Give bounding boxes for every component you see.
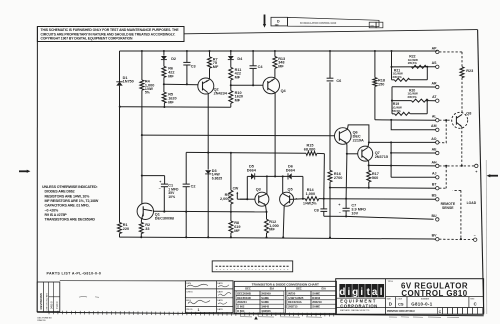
- svg-text:AJ: AJ: [432, 172, 437, 176]
- diode D6 D664: [288, 173, 292, 179]
- wire: Q4 emitter down to D5/D6 junction: [274, 93, 276, 177]
- wire: horizontal line y135 (R4 junction to Q6 base): [142, 134, 335, 137]
- potentiometer R9 2,000: [229, 190, 233, 204]
- wire: C8 bottom corner to BU line: [324, 215, 346, 217]
- svg-text:33: 33: [145, 227, 149, 231]
- svg-text:7120 C: 7120 C: [56, 301, 59, 309]
- svg-text:1/4W 6.8625: 1/4W 6.8625: [288, 296, 304, 300]
- capacitor C4: [250, 65, 257, 67]
- svg-text:2N4234: 2N4234: [237, 300, 247, 304]
- svg-text:AH: AH: [431, 160, 437, 164]
- bottom margin up-arrow mark: [254, 316, 258, 319]
- resistor R2 33: [139, 222, 143, 233]
- resistor R23 (external): [460, 67, 464, 78]
- transistor Q1 DEC3009B: [137, 203, 153, 219]
- capacitor C7 3.9 MFD 10V: [345, 199, 347, 208]
- svg-text:1: 1: [198, 308, 200, 312]
- wire: AE line: [391, 152, 436, 154]
- wire: BS line (C8 node through C7 to terminal BS): [324, 198, 436, 201]
- svg-text:i: i: [360, 287, 363, 298]
- wire: AO line: [369, 141, 436, 143]
- digital logo: [339, 284, 345, 297]
- title block frame: [336, 279, 484, 315]
- svg-text:g: g: [352, 287, 358, 298]
- smudge under chart: [240, 316, 322, 319]
- resistor R14 1,000 1/4W 5%: [305, 197, 319, 201]
- svg-text:68,000: 68,000: [304, 147, 316, 151]
- svg-text:RESISTORS ARE 1/4W, 10%: RESISTORS ARE 1/4W, 10%: [45, 194, 91, 198]
- svg-text:2,000: 2,000: [220, 197, 230, 201]
- diode D4: [228, 56, 234, 60]
- resistor R19 1 ohm WW 2W 5% (parallel loop): [395, 112, 411, 115]
- svg-text:D 662: D 662: [237, 305, 245, 309]
- svg-text:MF: MF: [278, 65, 284, 69]
- resistor R13 348 MF: [273, 57, 277, 69]
- wire: AL line: [375, 119, 436, 121]
- svg-text:DIODES ARE D662: DIODES ARE D662: [45, 190, 75, 194]
- wire: AH line (Q7 emitter node to terminal AH): [369, 164, 436, 167]
- terminal AT: [436, 99, 439, 102]
- svg-text:G810-0-1: G810-0-1: [411, 301, 433, 306]
- wire: reference line y152.8 (C2 top to R15): [186, 151, 306, 154]
- svg-text:l: l: [380, 287, 383, 298]
- svg-text:MF: MF: [269, 228, 275, 232]
- resistor R15 68,000: [306, 151, 317, 155]
- terminal AL: [436, 119, 439, 122]
- svg-text:SENSE: SENSE: [442, 206, 454, 210]
- svg-text:BV: BV: [432, 234, 438, 238]
- wire: dashed AL/AO tie: [439, 120, 446, 143]
- wire: Q4 base line: [231, 84, 263, 86]
- wire: AJ line: [391, 176, 436, 178]
- svg-text:1N3606: 1N3606: [261, 309, 271, 313]
- wire: R13 branch from top bus to Q4 collector: [274, 51, 276, 57]
- bottom border tick marks: [49, 311, 334, 317]
- svg-text:MAYNARD. MASSACHUSETTS: MAYNARD. MASSACHUSETTS: [340, 309, 370, 312]
- svg-text:AR: AR: [431, 81, 437, 85]
- wire: Q2 base line (R6/R5 junction to Q2): [164, 83, 199, 86]
- top margin title strip: [288, 17, 380, 26]
- wire: BT line (R16 bottom to terminal BT): [330, 187, 436, 190]
- wire: AO/AE/AJ tie rail x391.1: [390, 142, 392, 177]
- wire: dashed AH node down to BT stub: [445, 166, 447, 188]
- svg-text:2700: 2700: [334, 176, 342, 180]
- svg-text:TRANSISTORS ARE DEC6534D: TRANSISTORS ARE DEC6534D: [45, 218, 96, 222]
- svg-text:EIA: EIA: [270, 287, 274, 291]
- connector pin numbers (smudge): [216, 268, 288, 270]
- terminal AP: [436, 50, 439, 53]
- wire: dashed AP to R23 top: [439, 51, 462, 53]
- wire: Q5 collector up to clamp line: [282, 176, 284, 194]
- svg-text:2N2219: 2N2219: [312, 300, 322, 304]
- svg-text:2219A: 2219A: [353, 138, 364, 142]
- svg-text:SAME: SAME: [312, 291, 320, 295]
- resistor R7 75 MF: [208, 57, 212, 68]
- svg-text:10V: 10V: [351, 211, 358, 215]
- wire: AS line: [392, 66, 436, 68]
- svg-text:DEC3009B: DEC3009B: [155, 217, 174, 221]
- svg-text:1N750: 1N750: [123, 80, 134, 84]
- svg-text:LOAD: LOAD: [467, 201, 477, 205]
- svg-text:0485 B: 0485 B: [51, 301, 54, 309]
- svg-text:560: 560: [372, 176, 378, 180]
- svg-text:2W,5%: 2W,5%: [408, 95, 418, 99]
- terminal + (load positive): [475, 164, 478, 167]
- wire: C1 jog from R4 rail: [142, 175, 165, 177]
- resistor R8 619 MF: [229, 221, 233, 233]
- svg-text:2N3715: 2N3715: [288, 305, 298, 309]
- svg-text:1,000: 1,000: [306, 192, 316, 196]
- svg-text:DATE: DATE: [217, 308, 223, 311]
- wire: R20/R19 left rail: [391, 87, 393, 114]
- svg-text:MF: MF: [168, 100, 174, 104]
- wire: AR line: [392, 86, 436, 88]
- svg-text:C6: C6: [336, 79, 341, 83]
- svg-text:CORPORATION: CORPORATION: [340, 303, 378, 308]
- wire: Q2 emitter / D3 rail down to bottom bus: [207, 93, 209, 170]
- wire: D6 right end down to Q5 emitter/R14 node: [302, 176, 304, 198]
- svg-text:D 664: D 664: [237, 309, 245, 313]
- svg-text:2N4234: 2N4234: [214, 91, 228, 95]
- wire: +V top bus: [120, 50, 438, 52]
- svg-text:Q3: Q3: [256, 188, 261, 192]
- svg-text:IN750: IN750: [288, 291, 296, 295]
- svg-text:SIZE: SIZE: [387, 298, 392, 300]
- svg-text:MF: MF: [168, 74, 174, 78]
- wire: Q3 base line from R9 wiper: [240, 198, 255, 200]
- diode D5 D664: [251, 173, 255, 179]
- svg-text:R9 IS A #275P: R9 IS A #275P: [45, 213, 68, 217]
- svg-text:BS: BS: [432, 194, 438, 198]
- svg-text:DEC3009B: DEC3009B: [237, 291, 251, 295]
- svg-text:DATE: DATE: [217, 299, 223, 302]
- svg-text:G810: G810: [370, 25, 374, 27]
- svg-text:CODE: CODE: [397, 298, 403, 300]
- wire: Q6/Q7 node down to C7/BS node: [345, 154, 348, 199]
- svg-text:CHK CHG NO REV: CHK CHG NO REV: [46, 292, 48, 310]
- svg-text:MF RESISTORS ARE 1%, T2,1/8W: MF RESISTORS ARE 1%, T2,1/8W: [45, 199, 99, 203]
- junction dots: [141, 50, 143, 52]
- wire: Q1 emitter to R2: [140, 220, 142, 223]
- wire: C3 branch from top bus to Q2 base line: [186, 51, 188, 63]
- revision history smudge: [79, 296, 99, 297]
- terminal AR: [436, 85, 439, 88]
- svg-text:1/4W,5%: 1/4W,5%: [303, 202, 317, 206]
- capacitor C3: [183, 61, 190, 63]
- diode D3 (zener 6.8625): [205, 170, 211, 174]
- svg-text:CW: CW: [233, 187, 239, 191]
- resistor R16 2700: [328, 170, 332, 182]
- svg-text:AP: AP: [432, 46, 438, 50]
- svg-text:Q4: Q4: [281, 89, 287, 93]
- wire: Q5 emitter to R14 node: [293, 198, 303, 200]
- right margin left-arrow mark: [490, 175, 498, 177]
- svg-text:DRA 110: DRA 110: [38, 319, 47, 322]
- wire: C4 branch from top bus to Q4 base line: [252, 51, 254, 66]
- svg-text:10%: 10%: [168, 195, 175, 199]
- left margin right-arrow mark: [19, 170, 27, 172]
- top margin down-arrow mark: [264, 15, 266, 25]
- svg-text:6V REGULATOR CONTROL G810: 6V REGULATOR CONTROL G810: [300, 22, 337, 25]
- terminal - (load negative): [474, 238, 477, 241]
- wire: Q7 collector up to AO node: [368, 142, 369, 147]
- svg-text:AM: AM: [431, 124, 437, 128]
- svg-text:NUMBER: NUMBER: [421, 298, 430, 300]
- resistor R18 150: [373, 78, 377, 87]
- transistor Q6 DEC2219A: [335, 128, 352, 145]
- wire: dashed BT stub: [439, 187, 446, 189]
- svg-text:DEC2219A: DEC2219A: [288, 300, 302, 304]
- svg-text:−: −: [474, 234, 476, 238]
- wire: R4/Q1/R2 rail: [141, 51, 143, 80]
- svg-text:TITLE: TITLE: [388, 281, 394, 283]
- svg-text:2W,5%: 2W,5%: [393, 75, 403, 79]
- svg-text:DATE: DATE: [217, 282, 223, 285]
- smudge under title block: [389, 316, 459, 319]
- capacitor C6: [327, 77, 334, 79]
- svg-text:CONTROL G810: CONTROL G810: [401, 289, 467, 298]
- wire: C2 branch down to bottom bus: [185, 152, 187, 184]
- wire: dashed load loop (+ to -): [453, 189, 461, 191]
- svg-text:D: D: [277, 20, 280, 24]
- signatures (scribbles): [187, 284, 208, 286]
- wire: BU line (C8/C7 bottoms to terminal BU): [346, 216, 434, 219]
- svg-text:6.8625: 6.8625: [212, 176, 222, 180]
- svg-text:D2: D2: [171, 57, 176, 61]
- svg-text:CS: CS: [398, 301, 404, 306]
- svg-text:SAME: SAME: [261, 296, 269, 300]
- transistor and diode conversion chart: [234, 281, 336, 313]
- wire: D4/R11/R10 rail: [230, 51, 232, 56]
- svg-text:1N645: 1N645: [261, 305, 269, 309]
- svg-text:REVISIONS: REVISIONS: [39, 293, 43, 309]
- revision strip top edge: [60, 280, 186, 282]
- svg-text:MF: MF: [235, 75, 241, 79]
- resistor R5 1620 MF: [162, 92, 166, 103]
- wire: Q7 emitter to AH node: [368, 160, 369, 166]
- signature block: [185, 281, 233, 313]
- notice box (test and maintenance disclaimer): [37, 27, 184, 42]
- svg-text:SAME: SAME: [312, 305, 320, 309]
- svg-text:+: +: [159, 180, 161, 184]
- svg-text:DEC: DEC: [296, 287, 302, 291]
- svg-text:DATE: DATE: [217, 290, 223, 293]
- connector pin strip: [212, 261, 293, 272]
- resistor R1 220: [118, 223, 122, 234]
- svg-text:C8: C8: [314, 208, 319, 212]
- terminal BV: [436, 238, 439, 241]
- svg-text:2W,5%: 2W,5%: [408, 61, 418, 65]
- transistor Q3: [255, 192, 269, 206]
- terminal AS: [436, 65, 439, 68]
- wire: D1 left rail (top bus to bottom bus): [119, 51, 121, 82]
- svg-text:R23: R23: [466, 69, 473, 73]
- svg-text:Q5: Q5: [288, 188, 293, 192]
- wire: D5/D6 clamp line y176.4: [247, 175, 251, 177]
- svg-text:AE: AE: [432, 147, 438, 151]
- svg-text:2N3715: 2N3715: [375, 155, 388, 159]
- svg-text:MF: MF: [234, 229, 240, 233]
- svg-text:2W,5%: 2W,5%: [392, 109, 402, 113]
- resistor R11 422 MF: [229, 67, 233, 80]
- resistor R4 1,000: [140, 80, 144, 90]
- wire: D5 left end down to Q3 base line: [246, 176, 248, 199]
- terminal AJ: [436, 176, 439, 179]
- svg-text:EIA: EIA: [322, 287, 326, 291]
- wire: R17 bottom to BT line: [368, 182, 370, 188]
- svg-text:−: −: [159, 187, 161, 191]
- svg-text:−0 +20%: −0 +20%: [45, 208, 59, 212]
- svg-text:D4003: D4003: [312, 296, 320, 300]
- diode D2: [161, 56, 167, 60]
- wire: dashed AL to Q8 base: [439, 119, 452, 121]
- wire: C6/R16 rail from top bus to bottom bus: [329, 51, 331, 78]
- sheet border frame: [36, 27, 38, 313]
- svg-text:CAPACITORS ARE .01 MFD,: CAPACITORS ARE .01 MFD,: [45, 204, 90, 208]
- wire: AM jog from AL line: [391, 120, 435, 130]
- wire: R7 branch from top bus to Q2 collector: [209, 51, 211, 57]
- terminal BT: [436, 187, 439, 190]
- terminal BU: [436, 218, 439, 221]
- resistor R10 1620 MF: [229, 91, 233, 104]
- capacitor C8: [323, 199, 325, 209]
- svg-text:Q8: Q8: [466, 111, 471, 115]
- svg-text:a: a: [372, 287, 378, 298]
- svg-text:D: D: [389, 302, 392, 307]
- capacitor C2: [183, 183, 190, 185]
- wire: Q6 emitter down to Q7 base node: [345, 143, 348, 154]
- svg-text:220: 220: [123, 227, 129, 231]
- wire: R15 right end down to BS node: [317, 152, 325, 154]
- capacitor C1 1 MFD: [161, 183, 168, 185]
- terminal BS: [436, 198, 439, 201]
- wire: dashed AH line to + load terminal: [439, 165, 474, 167]
- wire: Q3 collector up to clamp line: [266, 176, 268, 194]
- resistor R22 1 ohm WW 2W 5%: [411, 65, 426, 68]
- svg-text:TRANSISTOR & DIODE CONVERSION: TRANSISTOR & DIODE CONVERSION CHART: [252, 282, 319, 286]
- svg-text:PROD: PROD: [186, 309, 193, 311]
- wire: Q7 base line: [347, 153, 358, 155]
- svg-text:C: C: [474, 302, 477, 307]
- transistor Q4: [263, 77, 280, 94]
- wire: R18 rail from top bus to AL line: [374, 51, 376, 78]
- svg-text:d: d: [339, 287, 345, 298]
- svg-text:2N3009: 2N3009: [261, 291, 271, 295]
- svg-text:C2: C2: [191, 184, 196, 188]
- svg-text:−: −: [339, 211, 341, 215]
- svg-text:C3: C3: [191, 64, 196, 68]
- wire: dashed BV line to - load terminal: [439, 238, 473, 240]
- transistor Q5: [280, 192, 294, 206]
- svg-text:MF: MF: [235, 99, 241, 103]
- wire: R9/R8 rail: [230, 153, 232, 190]
- wire: Q1 collector line y211.7: [153, 210, 267, 213]
- terminal AM: [436, 128, 439, 131]
- transistor Q7 2N3715: [358, 146, 373, 161]
- svg-text:D664: D664: [286, 168, 296, 172]
- svg-text:i: i: [347, 287, 350, 298]
- top margin drawing-number box (size D): [271, 17, 288, 26]
- size/code/number/rev row: [395, 297, 397, 308]
- svg-text:D664: D664: [247, 168, 257, 172]
- wire: Q6 collector loop to AO node: [347, 125, 369, 142]
- svg-text:PRINTED CIRCUIT REV.: PRINTED CIRCUIT REV.: [387, 310, 415, 313]
- wire: ballast network node rail x391.5: [391, 51, 393, 67]
- resistor R20 1 ohm WW 2W 5%: [411, 99, 428, 102]
- terminal AH: [436, 164, 439, 167]
- transistor Q8 (external, dashed): [452, 112, 468, 128]
- resistor R17 560: [368, 165, 370, 170]
- wire: negative bottom bus: [120, 237, 434, 239]
- svg-text:DEC: DEC: [245, 287, 251, 291]
- diode D1 (zener 1N750): [116, 82, 122, 86]
- svg-text:MF: MF: [213, 65, 219, 69]
- wire: Q3 emitter to R12 node: [265, 205, 266, 212]
- svg-text:UNLESS OTHERWISE INDICATED:: UNLESS OTHERWISE INDICATED:: [42, 185, 97, 189]
- svg-text:5%: 5%: [145, 91, 150, 95]
- svg-text:AS: AS: [432, 61, 438, 65]
- wire: D2/R6/R5 rail: [163, 51, 165, 56]
- terminal BV wire from bottom bus: [434, 238, 436, 240]
- svg-text:BU: BU: [431, 214, 437, 218]
- wire: horizontal line y107 (D1 rail to R5 and R10 bottoms): [120, 106, 231, 109]
- svg-text:150: 150: [378, 83, 384, 87]
- revisions table: [37, 282, 60, 312]
- svg-text:DEC6534D: DEC6534D: [237, 296, 251, 300]
- svg-text:SAME: SAME: [261, 300, 269, 304]
- wire: dashed Q8 emitter down to AH line: [461, 127, 463, 166]
- transistor Q2 2N4234: [198, 78, 214, 94]
- svg-text:REV.: REV.: [470, 298, 475, 300]
- svg-text:AO: AO: [431, 137, 437, 141]
- terminal AO: [436, 141, 439, 144]
- resistor R6 422 MF: [162, 66, 166, 77]
- wire: dashed R23 bottom to Q8 collector: [461, 78, 463, 114]
- resistor R12 1,000 MF: [265, 219, 269, 233]
- svg-text:COPYRIGHT 1967 BY DIGITAL EQUI: COPYRIGHT 1967 BY DIGITAL EQUIPMENT CORP…: [41, 37, 134, 41]
- resistor R21 1 ohm WW 2W 5% (parallel loop): [391, 67, 393, 80]
- svg-text:PARTS LIST A-PL-G810-0-0: PARTS LIST A-PL-G810-0-0: [47, 271, 102, 275]
- wire: Q5 lower lead to bottom bus: [283, 205, 284, 237]
- top margin small cells: [369, 22, 376, 28]
- right border outer faint line: [485, 160, 488, 314]
- terminal AE: [436, 151, 439, 154]
- svg-text:· ·: · ·: [389, 319, 391, 321]
- svg-text:CHK'D: CHK'D: [186, 291, 193, 293]
